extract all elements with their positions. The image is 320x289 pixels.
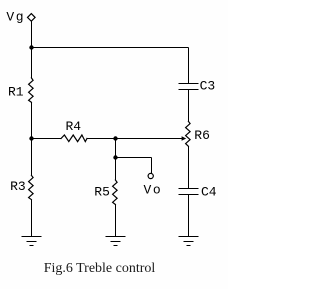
node junction Vo tap <box>113 155 117 159</box>
wire R6 to C4 <box>188 146 190 188</box>
ground middle <box>106 237 126 246</box>
wiper arrowhead into R6 <box>182 136 187 140</box>
resistor R6 (potentiometer) <box>186 121 191 146</box>
wire mid-left junction to R4 <box>32 138 62 140</box>
ground right <box>179 237 199 246</box>
wire R3 to left ground <box>31 200 33 237</box>
resistor R3 <box>29 175 33 199</box>
svg-text:C3: C3 <box>200 79 216 94</box>
wire top horizontal rail <box>32 47 189 49</box>
svg-text:Vg: Vg <box>6 9 25 24</box>
node junction center <box>113 136 117 140</box>
node junction top-left <box>29 45 33 49</box>
svg-text:Vo: Vo <box>144 183 163 198</box>
wire left rail junction to R1 <box>31 48 33 78</box>
wire mid-left junction down to R3 <box>31 139 33 176</box>
wire right rail down to C3 <box>188 48 190 84</box>
wire Vo tap corner down to terminal <box>151 158 153 174</box>
wire center junction down to Vo tap junction <box>115 139 117 158</box>
ground left <box>22 237 42 246</box>
capacitor C3 <box>179 84 199 90</box>
svg-text:R4: R4 <box>66 119 82 134</box>
wire wiper: center junction to R6 arrow <box>116 138 183 140</box>
svg-text:R5: R5 <box>94 185 110 200</box>
resistor R5 <box>113 180 118 205</box>
wire R4 to center junction <box>87 138 116 140</box>
wire Vg terminal to top-left junction <box>31 22 33 48</box>
resistor R4 <box>61 135 87 142</box>
wire Vo tap junction down to R5 <box>115 158 117 181</box>
terminal Vo (open circle) <box>148 173 153 178</box>
svg-text:R6: R6 <box>194 128 210 143</box>
wire C3 to R6 <box>188 90 190 122</box>
wire Vo tap horizontal <box>116 157 152 159</box>
wire R1 to mid-left junction <box>31 102 33 138</box>
capacitor C4 <box>179 189 199 195</box>
wire C4 to right ground <box>188 195 190 237</box>
svg-text:R1: R1 <box>8 84 24 99</box>
resistor R1 <box>29 78 33 102</box>
svg-text:R3: R3 <box>10 179 26 194</box>
svg-text:C4: C4 <box>201 185 217 200</box>
node junction mid-left <box>29 136 33 140</box>
terminal Vg (open diamond) <box>28 14 36 22</box>
straight wires (crisp) <box>32 22 189 237</box>
svg-text:Fig.6 Treble control: Fig.6 Treble control <box>44 261 156 276</box>
wire R5 to middle ground <box>115 205 117 237</box>
